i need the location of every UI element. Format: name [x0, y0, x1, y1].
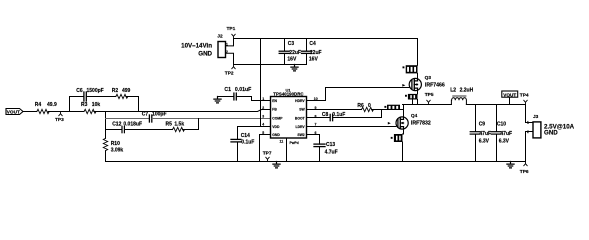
svg-text:3.09k: 3.09k	[111, 147, 124, 153]
wire VDD vertical from VIN rail	[260, 39, 262, 127]
net VOUT flag (right)	[502, 91, 518, 105]
ground C1	[214, 97, 221, 103]
svg-text:10k: 10k	[92, 102, 101, 108]
svg-text:R4: R4	[35, 102, 42, 108]
svg-text:C1: C1	[224, 87, 231, 93]
svg-text:PwPd: PwPd	[290, 141, 299, 145]
svg-text:TP4: TP4	[520, 92, 529, 98]
wire C6 to R2	[87, 96, 116, 98]
svg-text:R6: R6	[357, 103, 364, 109]
svg-text:C3: C3	[288, 41, 295, 47]
capacitor C12	[112, 122, 142, 133]
svg-text:2.2uH: 2.2uH	[460, 87, 474, 93]
ground mid rail	[273, 162, 280, 168]
ground output	[507, 162, 514, 168]
svg-text:R5: R5	[166, 122, 173, 128]
svg-text:FB: FB	[272, 108, 277, 112]
wire COMP line left segment	[106, 118, 150, 120]
wire COMP line right segment to U1 pin 3	[152, 118, 270, 120]
svg-text:R10: R10	[111, 141, 120, 147]
resistor R2	[112, 88, 131, 99]
capacitor C14	[231, 127, 254, 162]
transistor Q4 IRF7832	[396, 113, 431, 129]
capacitor C10	[491, 105, 512, 162]
svg-text:VOUT: VOUT	[503, 92, 516, 97]
wire J2 pin1 to VIN rail	[226, 39, 234, 46]
svg-text:C4: C4	[309, 41, 316, 47]
wire VIN rail	[234, 38, 418, 40]
wire output to J3 pin 1	[526, 105, 534, 123]
test point TP4	[520, 92, 529, 104]
svg-text:COMP: COMP	[272, 117, 283, 121]
svg-text:TPS40190DRC: TPS40190DRC	[273, 91, 304, 96]
wire BOOT pin 8	[307, 117, 330, 119]
svg-text:49.9: 49.9	[47, 102, 57, 108]
svg-text:C7: C7	[142, 112, 149, 118]
wire U1 pin 6 to C13	[307, 135, 320, 162]
capacitor C4	[302, 39, 322, 65]
svg-text:Q3: Q3	[425, 75, 432, 81]
inductor L2	[447, 87, 474, 104]
svg-text:BOOT: BOOT	[295, 117, 306, 121]
svg-text:TP1: TP1	[227, 26, 236, 32]
wire SW node line	[403, 104, 452, 106]
svg-text:C13: C13	[326, 142, 335, 148]
svg-text:C12: C12	[112, 122, 121, 128]
wire Q4 source to ground rail	[402, 142, 404, 162]
svg-text:47uF: 47uF	[500, 131, 512, 137]
svg-text:1.5k: 1.5k	[174, 122, 184, 128]
test point TP5	[425, 92, 434, 104]
svg-text:0.1uF: 0.1uF	[241, 140, 254, 146]
wire Q3 drain from VIN rail	[417, 39, 419, 66]
connector J3	[527, 114, 541, 138]
wire input GND rail	[234, 64, 307, 66]
svg-text:TP6: TP6	[520, 169, 529, 175]
transistor Q3 IRF7466	[409, 75, 445, 91]
svg-text:TP3: TP3	[55, 117, 64, 123]
capacitor C7	[142, 112, 167, 122]
wire J2 pin2 to GND rail	[226, 53, 234, 64]
svg-text:11: 11	[280, 140, 284, 144]
svg-text:1: 1	[262, 97, 264, 101]
wire R10 to ground rail	[105, 151, 107, 162]
svg-text:R3: R3	[81, 102, 88, 108]
capacitor C8	[322, 112, 345, 121]
svg-text:R2: R2	[112, 88, 119, 94]
wire J3 pin 2 to ground rail	[526, 132, 534, 162]
svg-text:1500pF: 1500pF	[87, 88, 104, 94]
svg-text:GND: GND	[198, 51, 212, 58]
wire Q3 circle drain	[417, 73, 419, 81]
label output voltage	[544, 123, 575, 136]
svg-text:4.7uF: 4.7uF	[325, 150, 338, 156]
wire L2 to output	[466, 104, 525, 106]
wire SW pin 9	[307, 109, 362, 111]
svg-text:Q4: Q4	[411, 113, 418, 119]
svg-text:SW: SW	[299, 108, 305, 112]
resistor R4	[35, 102, 57, 114]
svg-text:1: 1	[527, 121, 529, 125]
svg-text:TP7: TP7	[263, 150, 272, 156]
wire FB line to U1 pin 2	[94, 110, 271, 112]
capacitor C9	[470, 105, 491, 162]
svg-text:3: 3	[262, 114, 264, 118]
transistor Q3 gate arrow	[402, 84, 405, 87]
svg-text:16V: 16V	[287, 57, 297, 63]
svg-text:C14: C14	[241, 133, 250, 139]
wire LDRV pin 7 to Q4 gate	[307, 126, 396, 128]
net VOUT flag (left)	[6, 109, 23, 115]
test point TP1	[227, 26, 236, 39]
svg-text:EN: EN	[272, 99, 277, 103]
jumper link Q4 source	[391, 134, 403, 142]
svg-text:0: 0	[368, 103, 371, 109]
wire C1 to U1 pin 1 EN	[237, 97, 271, 101]
svg-text:C8: C8	[322, 112, 329, 118]
svg-text:22uF: 22uF	[310, 50, 322, 56]
wire Q4 drain to SW node	[403, 105, 405, 120]
svg-text:VOUT: VOUT	[7, 110, 20, 115]
wire ground rail	[106, 161, 526, 163]
svg-text:TP2: TP2	[225, 71, 234, 77]
capacitor C13	[314, 142, 338, 156]
wire R2 to branch end	[126, 97, 139, 112]
svg-text:0.01uF: 0.01uF	[235, 87, 251, 93]
pin 11 PowerPAD stub	[280, 138, 299, 162]
svg-text:5: 5	[262, 131, 264, 135]
node junction at feedback divider	[69, 97, 71, 112]
svg-text:HDRV: HDRV	[295, 99, 305, 103]
svg-text:16V: 16V	[309, 57, 319, 63]
svg-text:10V–14Vin: 10V–14Vin	[181, 42, 212, 49]
connector J2	[217, 34, 228, 58]
wire HDRV pin 10 to Q3 gate	[307, 88, 410, 101]
svg-text:C6: C6	[76, 88, 83, 94]
svg-text:C10: C10	[497, 121, 506, 127]
label input voltage	[181, 42, 212, 57]
svg-text:100pF: 100pF	[152, 112, 166, 118]
test point TP6	[520, 162, 529, 176]
svg-text:47uF: 47uF	[479, 131, 491, 137]
svg-text:GND: GND	[272, 133, 280, 137]
wire comp RC branch	[106, 129, 122, 131]
wire Q4 source down	[403, 127, 404, 134]
transistor Q4 gate arrow	[388, 122, 391, 125]
capacitor C3	[279, 39, 301, 65]
resistor R6	[357, 103, 373, 112]
svg-text:J3: J3	[533, 114, 539, 120]
wire comp branch top	[70, 96, 84, 98]
svg-text:LDRV: LDRV	[296, 125, 306, 129]
svg-text:6.3V: 6.3V	[479, 138, 490, 144]
svg-text:C9: C9	[479, 121, 486, 127]
wire jumper to SW node	[400, 109, 403, 111]
test point TP7	[263, 150, 272, 161]
wire R4 to R3	[48, 111, 84, 113]
wire VDD pin 4	[238, 126, 271, 128]
test point TP2	[225, 65, 235, 77]
svg-text:499: 499	[122, 88, 131, 94]
svg-text:6.3V: 6.3V	[499, 138, 510, 144]
capacitor C1	[224, 87, 251, 100]
jumper link Q3 source	[405, 94, 418, 100]
svg-text:TP5: TP5	[425, 92, 434, 98]
svg-text:GND: GND	[544, 130, 558, 137]
test point TP3	[55, 112, 64, 123]
svg-text:22uF: 22uF	[289, 50, 301, 56]
jumper link Q3 drain	[403, 65, 418, 73]
ground input	[291, 65, 298, 71]
wire C8 to SW	[333, 110, 382, 118]
svg-text:J2: J2	[217, 34, 223, 40]
svg-text:IRF7832: IRF7832	[411, 120, 431, 126]
svg-text:L2: L2	[450, 87, 456, 93]
wire R5 up to COMP line	[183, 119, 199, 130]
resistor R10	[103, 138, 123, 153]
svg-text:2: 2	[262, 106, 264, 110]
resistor R5	[166, 122, 185, 132]
wire R6 to jumper	[372, 109, 388, 111]
resistor R3	[81, 102, 100, 114]
jumper link SW line	[384, 105, 400, 110]
wire U1 pin 5 GND to rail	[260, 135, 271, 162]
node FB divider junction down	[105, 112, 107, 139]
capacitor C6	[76, 88, 103, 101]
svg-text:VDD: VDD	[272, 125, 280, 129]
svg-text:SW2: SW2	[297, 133, 304, 137]
wire Q3 source to jumper	[417, 88, 419, 94]
svg-text:IRF7466: IRF7466	[425, 83, 445, 89]
svg-text:0.018uF: 0.018uF	[123, 122, 142, 128]
wire C12 to R5	[125, 129, 173, 131]
wire C1 left	[218, 96, 234, 98]
op-amp U1 TPS40190DRC controller	[271, 87, 307, 138]
wire VOUT to R4	[23, 111, 37, 113]
svg-text:4: 4	[262, 123, 264, 127]
wire Q3 source to SW node	[413, 100, 418, 105]
